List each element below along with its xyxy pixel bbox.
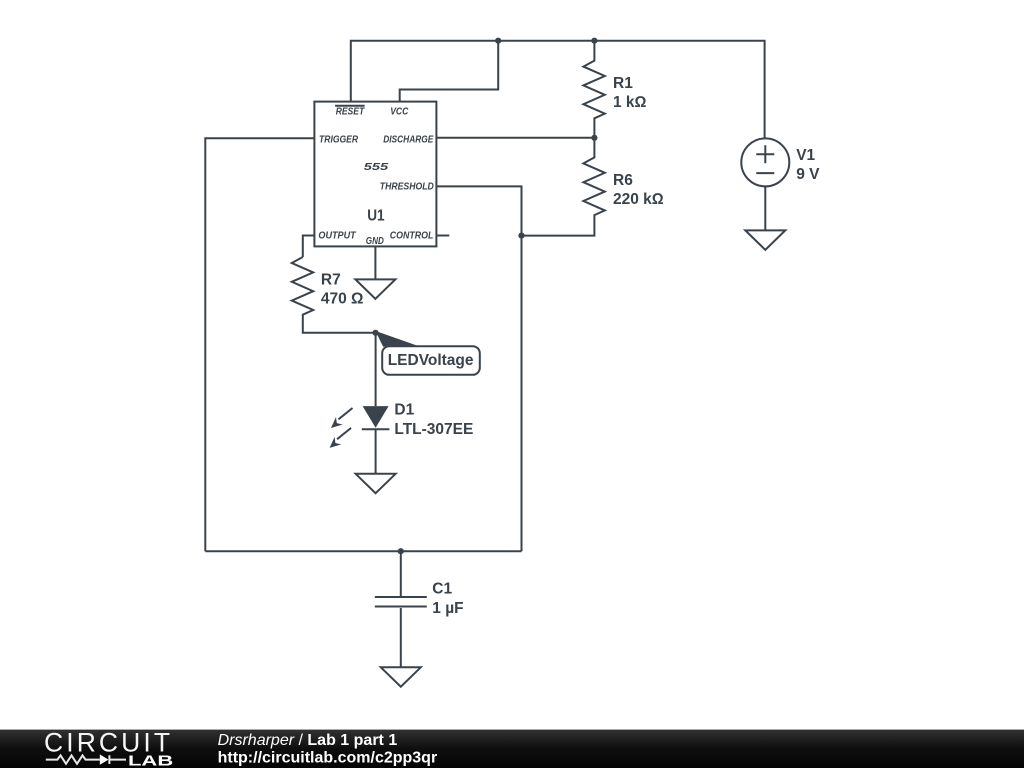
ground 555 GND bbox=[355, 279, 395, 298]
ground C1 bbox=[381, 667, 421, 686]
flag LEDVoltage bbox=[376, 331, 480, 375]
svg-text:D1: D1 bbox=[394, 402, 414, 419]
node LEDVoltage bbox=[373, 330, 379, 336]
svg-text:V1: V1 bbox=[796, 147, 815, 164]
svg-text:R6: R6 bbox=[613, 172, 633, 189]
resistor R6 bbox=[522, 138, 664, 236]
svg-text:DISCHARGE: DISCHARGE bbox=[383, 134, 434, 146]
wire LEDVoltage node to LED bbox=[375, 333, 377, 406]
node C1 junction bbox=[398, 548, 404, 554]
555 timer U1 bbox=[314, 102, 436, 247]
wire THRESHOLD to right column bbox=[436, 186, 521, 551]
svg-text:http://circuitlab.com/c2pp3qr: http://circuitlab.com/c2pp3qr bbox=[218, 750, 438, 767]
footer bar bbox=[0, 728, 1024, 768]
ground V1 bbox=[745, 230, 785, 249]
svg-text:1 kΩ: 1 kΩ bbox=[613, 94, 647, 111]
svg-text:LTL-307EE: LTL-307EE bbox=[394, 421, 473, 438]
resistor R7 bbox=[292, 257, 376, 333]
svg-text:RESET: RESET bbox=[336, 105, 366, 117]
ground LED bbox=[356, 474, 396, 493]
LED D1 bbox=[330, 402, 474, 448]
voltage source V1 bbox=[741, 138, 820, 230]
capacitor C1 bbox=[375, 551, 464, 667]
svg-text:Drsrharper / Lab 1 part 1: Drsrharper / Lab 1 part 1 bbox=[218, 732, 398, 749]
svg-text:LAB: LAB bbox=[128, 752, 173, 768]
wire bottom rail bbox=[205, 550, 521, 552]
wire GND pin bbox=[374, 246, 376, 279]
svg-text:R7: R7 bbox=[321, 271, 341, 288]
node R1 top junction bbox=[591, 38, 597, 44]
svg-text:U1: U1 bbox=[367, 207, 385, 224]
node R1/R6/DISCHARGE junction bbox=[591, 135, 597, 141]
svg-text:OUTPUT: OUTPUT bbox=[318, 229, 357, 241]
node THRESHOLD/R6 junction bbox=[518, 233, 524, 239]
wire VCC to top rail bbox=[400, 41, 499, 102]
svg-text:9 V: 9 V bbox=[796, 166, 820, 183]
svg-text:GND: GND bbox=[366, 235, 384, 247]
svg-text:THRESHOLD: THRESHOLD bbox=[380, 180, 434, 192]
svg-text:470 Ω: 470 Ω bbox=[321, 290, 364, 307]
svg-text:TRIGGER: TRIGGER bbox=[319, 134, 358, 146]
svg-text:1 µF: 1 µF bbox=[432, 600, 463, 617]
svg-text:VCC: VCC bbox=[390, 105, 408, 117]
svg-text:CONTROL: CONTROL bbox=[390, 229, 434, 241]
wire LED to ground bbox=[375, 429, 377, 474]
svg-text:LEDVoltage: LEDVoltage bbox=[388, 352, 474, 369]
resistor R1 bbox=[583, 41, 646, 138]
wire DISCHARGE to R1/R6 node bbox=[436, 137, 594, 139]
svg-text:555: 555 bbox=[364, 161, 389, 173]
wire OUTPUT to R7 bbox=[303, 236, 315, 258]
svg-text:C1: C1 bbox=[432, 581, 452, 598]
wire CONTROL stub bbox=[436, 235, 449, 237]
node VCC junction bbox=[495, 38, 501, 44]
wire top rail bbox=[351, 41, 765, 138]
wire TRIGGER to left rail bbox=[205, 138, 314, 551]
svg-text:220 kΩ: 220 kΩ bbox=[613, 191, 664, 208]
svg-text:R1: R1 bbox=[613, 75, 633, 92]
